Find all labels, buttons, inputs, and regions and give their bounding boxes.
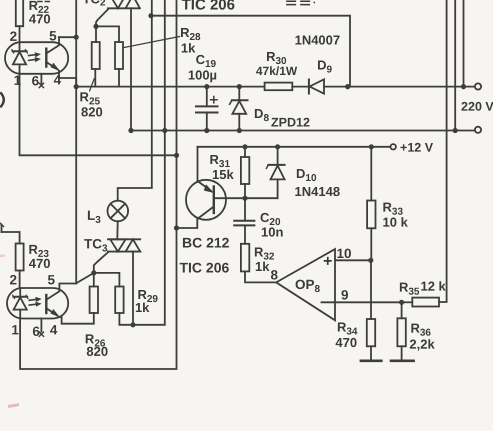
svg-text:10 k: 10 k xyxy=(382,215,408,230)
cut text paren at left edge xyxy=(0,92,4,107)
label R30 value xyxy=(256,49,298,78)
wire from TC2 top junction to right loop xyxy=(151,16,350,87)
node pin4 of U1 / DC rail junction xyxy=(74,84,79,89)
label pointer line R28 xyxy=(124,37,180,48)
terminal +12V xyxy=(391,144,396,149)
svg-text:1N4148: 1N4148 xyxy=(295,184,341,199)
wire vertical x=463.5 from top to AC rail 1 xyxy=(463,0,465,87)
resistor R34 (box) xyxy=(367,260,375,359)
svg-text:BC 212: BC 212 xyxy=(182,234,230,250)
label R35 value xyxy=(399,279,447,298)
svg-text:47k/1W: 47k/1W xyxy=(256,64,298,78)
svg-text:+12 V: +12 V xyxy=(400,141,434,155)
svg-text:1k: 1k xyxy=(255,259,270,274)
triac TC2 (cut at top edge) xyxy=(108,0,140,131)
ground R34 xyxy=(361,359,381,362)
pin 6 stub of U1 (unconnected) xyxy=(39,74,43,88)
label R36 value xyxy=(409,321,435,352)
optocoupler U2 body (stadium outline) xyxy=(7,288,68,319)
wire vertical rail x=152 from top to lamp L3 xyxy=(118,0,152,201)
scan smudge pink xyxy=(8,405,19,407)
label R34 value xyxy=(335,320,357,351)
capacitor C20 xyxy=(234,198,254,244)
transistor Q1 BC212 (circle) xyxy=(186,180,226,220)
resistor R32 (box) xyxy=(241,244,276,283)
wire +12V rail xyxy=(198,146,391,148)
svg-text:470: 470 xyxy=(335,335,357,350)
wire Q1 base to R31/C20/D10 node xyxy=(214,197,278,199)
node pin5/rail junction xyxy=(74,35,79,40)
resistor R22 (box, cut at top edge) xyxy=(16,0,23,42)
zener diode D8 ZPD12 xyxy=(230,87,248,131)
svg-text:2,2k: 2,2k xyxy=(409,337,435,352)
label D10 1N4148 xyxy=(295,166,341,199)
wire gate node to R29 top xyxy=(94,273,120,287)
node pin9 / R35 / R36 xyxy=(399,300,404,305)
svg-text:8: 8 xyxy=(270,268,278,283)
wire gate of TC2 to node xyxy=(96,9,109,27)
svg-text:1k: 1k xyxy=(135,300,150,315)
wire vertical x=455 from top to AC rail 2 xyxy=(454,0,456,131)
node junction on x=176 rail xyxy=(174,153,179,158)
plus sign at pin 10 xyxy=(324,257,332,265)
svg-text:TIC 206: TIC 206 xyxy=(179,259,229,275)
svg-text:TIC 206: TIC 206 xyxy=(182,0,235,13)
svg-text:10: 10 xyxy=(336,246,351,261)
svg-text:1: 1 xyxy=(14,73,22,88)
resistor R33 (box) xyxy=(367,147,375,260)
label R31 value xyxy=(210,152,235,182)
wire TC3 gate xyxy=(94,252,109,273)
svg-text:5: 5 xyxy=(49,28,57,43)
resistor R26 (box) xyxy=(62,287,98,324)
svg-text:470: 470 xyxy=(29,256,51,271)
ground R36 xyxy=(391,359,414,362)
svg-text:ZPD12: ZPD12 xyxy=(271,116,310,130)
diode D10 1N4148 xyxy=(266,147,284,198)
lamp L3 xyxy=(108,201,129,240)
svg-text:1k: 1k xyxy=(181,40,196,55)
wire AC rail y=130.5 xyxy=(131,130,475,132)
scan smudge pink small xyxy=(0,254,5,257)
node R33 top xyxy=(369,144,374,149)
diode D9 1N4007 xyxy=(309,79,475,93)
svg-text:6: 6 xyxy=(32,73,40,88)
wire vertical rail x=165 from top to TC3 bottom xyxy=(133,0,165,325)
node TC3 gate / R26 / R29 xyxy=(91,270,96,275)
resistor R23 (box) xyxy=(0,222,24,288)
label R29 value xyxy=(135,287,158,315)
optocoupler U1 body (stadium outline) xyxy=(5,42,68,74)
node x=165 rail / AC rail xyxy=(162,128,167,133)
label R33 value xyxy=(382,200,408,230)
resistor R25 (box) xyxy=(92,42,100,87)
node Q1 collector / x=176 rail xyxy=(174,225,179,230)
node R31 top xyxy=(242,144,247,149)
label R25 value xyxy=(80,89,103,119)
wire vertical rail x=176 from top down to bottom wire xyxy=(20,0,176,369)
wire left rail (x=76) from top edge down to opto U2 pin5 xyxy=(75,0,77,284)
node TC3 MT2 / R29 / x=165 rail xyxy=(130,322,135,327)
svg-text:4: 4 xyxy=(54,72,62,87)
svg-text:2: 2 xyxy=(10,29,18,44)
wire DC rail y=86.6 from U1 pin4 node to R30 xyxy=(76,86,264,88)
op-amp OP8 (triangle, output to the left) xyxy=(276,249,335,320)
node D8 top xyxy=(237,84,242,89)
svg-text:100µ: 100µ xyxy=(188,67,217,82)
LED inside optocoupler U1 xyxy=(12,42,28,74)
label R22 value xyxy=(29,0,51,26)
svg-text:6: 6 xyxy=(32,324,40,339)
label C19 value xyxy=(188,52,217,83)
svg-text:1: 1 xyxy=(11,322,19,337)
svg-text:820: 820 xyxy=(81,104,103,119)
node at TC2 junction xyxy=(148,13,153,18)
label C20 value xyxy=(260,210,283,240)
light arrows of optocoupler U1 xyxy=(29,53,41,62)
LED inside optocoupler U2 xyxy=(13,288,28,319)
capacitor C19 (electrolytic) xyxy=(196,87,218,131)
transistor Q1 emitter with arrow xyxy=(198,181,214,193)
label R32 value xyxy=(254,245,275,275)
node D9 loop junction xyxy=(345,84,350,89)
resistor R28 (box) xyxy=(115,42,123,87)
node base/R31/C20 xyxy=(242,196,247,201)
terminal AC line 1 xyxy=(475,83,481,89)
svg-text:820: 820 xyxy=(86,344,108,359)
svg-text:10n: 10n xyxy=(261,225,283,240)
label R26 value xyxy=(85,331,108,359)
wire pin1 of U1 down and right to x=176 rail xyxy=(20,74,177,156)
node D8 bottom xyxy=(237,128,242,133)
node C19 bottom xyxy=(204,128,209,133)
node TC2 gate / R25 / R28 xyxy=(93,24,98,29)
svg-text:470: 470 xyxy=(29,11,51,26)
node TC2 MT2 / AC rail xyxy=(128,128,133,133)
wire pin5 U1 to left rail xyxy=(59,36,76,38)
wire gate node to R25 top xyxy=(95,26,97,42)
terminal AC line 2 xyxy=(475,127,481,133)
resistor R29 (box) xyxy=(115,287,133,325)
phototransistor inside optocoupler U2 xyxy=(46,284,76,318)
node AC line 1 junction xyxy=(461,84,466,89)
resistor R30 (box) xyxy=(265,83,309,91)
light arrows of optocoupler U2 xyxy=(29,297,41,306)
phototransistor inside optocoupler U1 xyxy=(46,37,76,86)
node D10 top xyxy=(275,144,280,149)
wire pin 10 (+ input) xyxy=(335,259,371,261)
wire gate node diagonal to left rail / U2 pin5 xyxy=(77,273,94,283)
triac TC3 xyxy=(108,239,140,324)
transistor Q1 collector xyxy=(177,207,214,229)
node pin10 / R33 / R34 xyxy=(368,258,373,263)
svg-text:15k: 15k xyxy=(212,167,234,182)
resistor R31 (box) xyxy=(241,147,249,198)
resistor R36 (box) xyxy=(397,302,405,359)
label pointer line R25 xyxy=(90,79,95,91)
svg-text:4: 4 xyxy=(50,322,58,337)
svg-text:12 k: 12 k xyxy=(420,279,446,294)
transistor Q1 base bar xyxy=(213,187,215,214)
pin 6 stub of U2 (unconnected) xyxy=(39,319,43,337)
resistor R35 (box) xyxy=(402,298,439,307)
svg-text:5: 5 xyxy=(47,272,55,287)
cut text remnant top middle xyxy=(286,1,315,4)
wire gate node to R28 top xyxy=(96,26,119,42)
svg-text:1N4007: 1N4007 xyxy=(295,33,341,48)
node C19 top xyxy=(204,84,209,89)
label D8 ZPD12 xyxy=(254,106,310,130)
label R28 value xyxy=(180,25,201,56)
label R23 value xyxy=(28,242,50,271)
svg-text:9: 9 xyxy=(341,288,349,303)
wire +12V corner down to Q1 emitter xyxy=(197,147,199,181)
svg-text:220 V~: 220 V~ xyxy=(461,100,493,114)
wire gate node to R26 top xyxy=(93,273,95,287)
wire pin 9 (- input) xyxy=(322,301,402,303)
svg-text:2: 2 xyxy=(9,272,17,287)
node AC line 2 junction xyxy=(453,128,458,133)
wire vertical x=446.5 from top to R35 xyxy=(439,0,447,302)
